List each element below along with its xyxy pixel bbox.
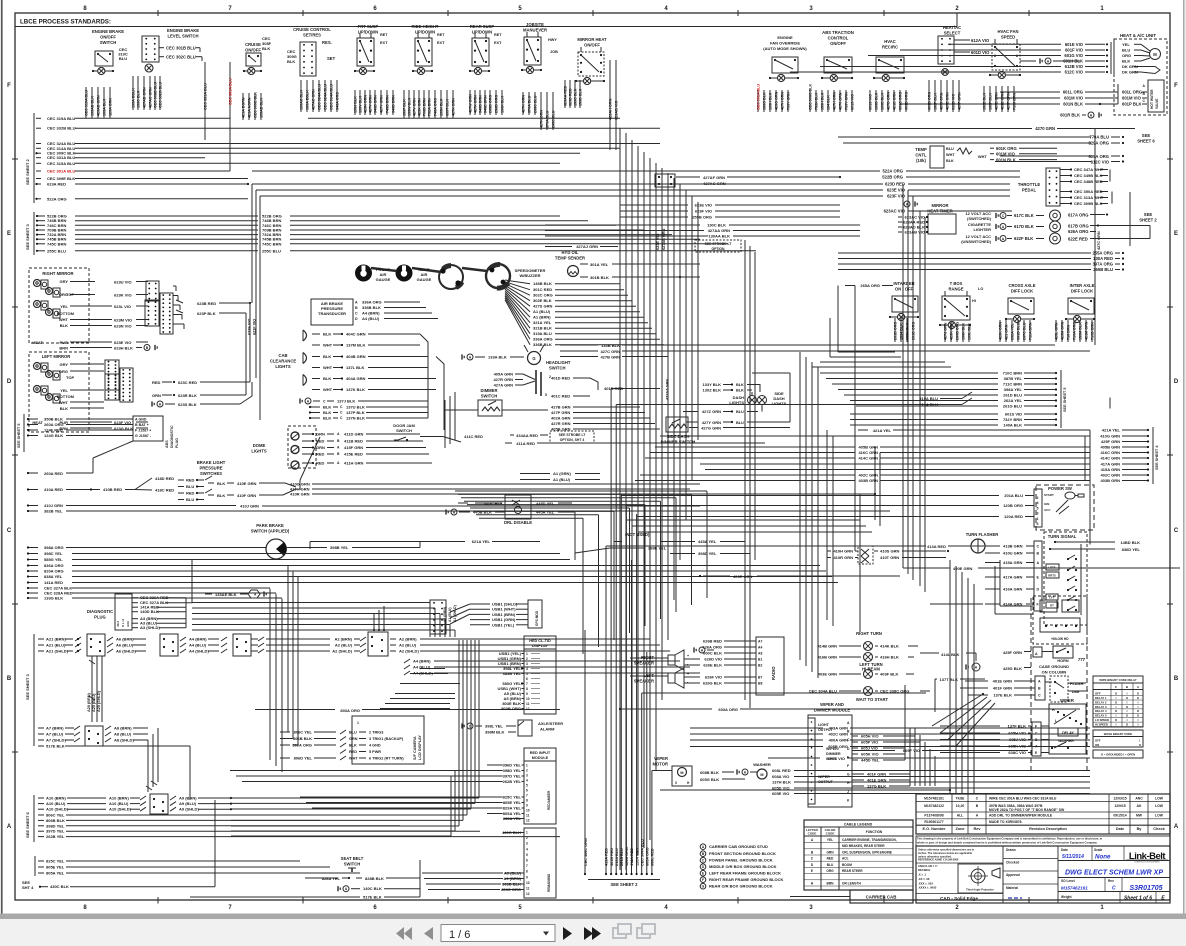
svg-text:WASH BINARY CODE: WASH BINARY CODE (1104, 732, 1133, 736)
svg-text:CEC 301A BLU: CEC 301A BLU (229, 78, 233, 105)
svg-text:10: 10 (526, 697, 530, 701)
svg-text:(10k): (10k) (916, 158, 926, 163)
svg-text:CEC 332B BLU: CEC 332B BLU (159, 81, 163, 108)
svg-text:CARRIER CAB: CARRIER CAB (866, 895, 897, 900)
svg-text:410E GRN: 410E GRN (237, 481, 256, 486)
svg-text:265B BLU: 265B BLU (1093, 267, 1113, 272)
svg-text:141A RED: 141A RED (44, 580, 63, 585)
svg-text:261B ORG: 261B ORG (912, 322, 916, 340)
svg-text:DELAY 3: DELAY 3 (1095, 705, 1107, 709)
svg-text:WIPER: WIPER (654, 756, 668, 761)
svg-text:421A YEL: 421A YEL (1102, 428, 1121, 433)
svg-text:RADIO: RADIO (771, 666, 776, 680)
svg-text:601M VIO: 601M VIO (996, 152, 1016, 157)
svg-text:VALVE: VALVE (1155, 98, 1159, 109)
svg-text:Approval: Approval (1006, 873, 1020, 877)
svg-text:133L BLK: 133L BLK (968, 323, 972, 340)
svg-text:D: D (7, 379, 12, 385)
svg-text:420C BLK: 420C BLK (502, 830, 521, 835)
svg-text:401F GRN: 401F GRN (867, 772, 886, 777)
svg-text:B1: B1 (758, 658, 762, 662)
svg-text:FRONT SECTION GROUND BLOCK: FRONT SECTION GROUND BLOCK (709, 851, 776, 856)
svg-text:TEMP SENDER: TEMP SENDER (555, 256, 585, 261)
svg-text:B8: B8 (758, 682, 762, 686)
svg-text:133G BLK: 133G BLK (44, 596, 63, 601)
svg-text:321B BLK: 321B BLK (533, 326, 552, 331)
svg-text:CARRIER ENGINE, TRANSMISSION,: CARRIER ENGINE, TRANSMISSION, (842, 838, 897, 842)
svg-text:SELECT: SELECT (944, 30, 961, 35)
svg-text:825C YEL: 825C YEL (46, 859, 65, 864)
svg-text:11: 11 (526, 887, 530, 891)
svg-text:WHT: WHT (59, 317, 69, 322)
svg-text:135J BLK: 135J BLK (354, 96, 358, 113)
svg-text:ORG: ORG (59, 369, 68, 374)
svg-text:153E BLK: 153E BLK (983, 92, 987, 110)
svg-text:3 TRIG1 (BACKUP): 3 TRIG1 (BACKUP) (369, 737, 404, 741)
svg-text:133A BLK: 133A BLK (103, 98, 107, 116)
svg-text:605S VIO: 605S VIO (828, 756, 845, 761)
svg-text:A4: A4 (758, 646, 762, 650)
svg-text:BLK: BLK (60, 323, 68, 328)
svg-text:WHT: WHT (978, 155, 987, 159)
svg-text:806A ORG: 806A ORG (292, 743, 312, 748)
svg-text:336A ORG: 336A ORG (533, 337, 553, 342)
svg-text:133H BLK: 133H BLK (769, 92, 773, 110)
svg-text:BOOM: BOOM (842, 863, 852, 867)
svg-text:405B GRN: 405B GRN (858, 445, 878, 450)
svg-text:265C BLU: 265C BLU (534, 95, 538, 113)
svg-text:398D YEL: 398D YEL (503, 768, 522, 773)
svg-text:601K ORG: 601K ORG (996, 146, 1017, 151)
svg-text:BLK: BLK (217, 481, 225, 486)
svg-text:REFERENCE ASME Y14.5M-2009: REFERENCE ASME Y14.5M-2009 (918, 858, 959, 862)
svg-text:THROTTLE: THROTTLE (1018, 182, 1041, 187)
svg-text:CEC 314A BLU: CEC 314A BLU (330, 84, 334, 110)
svg-text:G: G (847, 773, 850, 777)
svg-text:605D VIO: 605D VIO (772, 786, 790, 791)
svg-text:770A BLU: 770A BLU (1089, 135, 1109, 140)
svg-text:SEE STROBE LT: SEE STROBE LT (705, 242, 733, 246)
svg-text:398A ORG: 398A ORG (44, 545, 64, 550)
svg-text:WHT: WHT (323, 365, 333, 370)
svg-text:262B YEL: 262B YEL (46, 834, 65, 839)
svg-text:RED: RED (316, 439, 325, 444)
svg-text:427AC GRN: 427AC GRN (312, 89, 316, 110)
svg-text:5: 5 (545, 393, 547, 397)
svg-text:START: START (1044, 493, 1054, 497)
svg-text:346D BRN: 346D BRN (392, 95, 396, 113)
svg-text:612C VIO: 612C VIO (1065, 70, 1084, 75)
svg-text:A20 (BLU): A20 (BLU) (92, 693, 96, 712)
svg-text:1537 BLK: 1537 BLK (403, 99, 407, 116)
svg-text:137M BLK: 137M BLK (346, 343, 365, 348)
svg-text:9: 9 (526, 875, 528, 879)
svg-text:OUTPUT: OUTPUT (818, 780, 834, 784)
svg-text:SEE SHEET 5: SEE SHEET 5 (1063, 388, 1067, 412)
svg-text:803D BLK: 803D BLK (502, 882, 521, 887)
svg-text:DOME: DOME (253, 443, 266, 448)
svg-text:M: M (1153, 52, 1157, 57)
svg-text:A6 (BLU): A6 (BLU) (116, 643, 134, 648)
svg-text:SWITCHES: SWITCHES (200, 471, 222, 476)
svg-text:445D YEL: 445D YEL (536, 501, 555, 506)
svg-text:623N VIO: 623N VIO (114, 324, 132, 329)
svg-text:None: None (1095, 854, 1111, 861)
svg-text:Rev: Rev (1108, 879, 1114, 883)
svg-text:623E VIO: 623E VIO (656, 233, 660, 250)
svg-text:745C BRN: 745C BRN (47, 241, 66, 246)
svg-text:623F VIO: 623F VIO (887, 194, 906, 199)
svg-text:623D RED: 623D RED (885, 182, 905, 187)
svg-text:SWITCH (APPLIED): SWITCH (APPLIED) (251, 529, 290, 534)
svg-text:C: C (7, 528, 12, 534)
svg-text:POWER PANEL GROUND BLOCK: POWER PANEL GROUND BLOCK (709, 858, 773, 863)
svg-text:410R GRN: 410R GRN (290, 492, 310, 497)
svg-text:BRN: BRN (827, 881, 835, 885)
svg-text:403B GRN: 403B GRN (858, 478, 878, 483)
svg-text:423AD GRN: 423AD GRN (97, 95, 101, 116)
svg-text:ACL: ACL (842, 857, 849, 861)
svg-text:12/03/15: 12/03/15 (1113, 797, 1126, 801)
svg-text:402C GRN: 402C GRN (1100, 473, 1120, 478)
svg-text:BLK: BLK (287, 59, 295, 64)
svg-text:SET/RES: SET/RES (303, 32, 321, 37)
svg-text:410U GRN: 410U GRN (1003, 551, 1023, 556)
svg-text:319A BLU: 319A BLU (533, 331, 552, 336)
svg-text:410G GRN: 410G GRN (1100, 434, 1120, 439)
svg-text:265A ORG: 265A ORG (860, 283, 880, 288)
svg-text:BLU: BLU (186, 497, 194, 502)
svg-text:BLU: BLU (1122, 48, 1130, 53)
svg-text:SPEED: SPEED (1001, 34, 1015, 39)
svg-text:321A YEL: 321A YEL (533, 320, 552, 325)
svg-text:SEE SHEET 3: SEE SHEET 3 (25, 673, 30, 700)
svg-text:PRESSURE: PRESSURE (199, 466, 222, 471)
svg-text:601M VIO: 601M VIO (1064, 96, 1084, 101)
svg-text:CONTROL: CONTROL (828, 35, 849, 40)
svg-text:623K VIO: 623K VIO (114, 293, 132, 298)
svg-text:711A BRN: 711A BRN (1029, 322, 1033, 340)
svg-text:421A YEL: 421A YEL (873, 428, 892, 433)
svg-text:MADE TO X3R03876.: MADE TO X3R03876. (989, 820, 1023, 824)
svg-text:836A ORG: 836A ORG (44, 563, 64, 568)
svg-text:HVAC: HVAC (884, 39, 896, 44)
svg-text:137G BLK: 137G BLK (867, 784, 886, 789)
svg-text:DELAY 2: DELAY 2 (1095, 700, 1107, 704)
svg-text:MOVE 262A TO POS 7 OF "T BOX R: MOVE 262A TO POS 7 OF "T BOX RANGE" SW (989, 808, 1065, 812)
svg-text:A: A (7, 824, 12, 830)
svg-text:621A YEL: 621A YEL (472, 539, 491, 544)
svg-text:YEL: YEL (827, 838, 833, 842)
svg-text:HOT WATER: HOT WATER (1150, 89, 1154, 109)
svg-text:301C RED: 301C RED (533, 287, 552, 292)
svg-text:623M VIO: 623M VIO (114, 318, 132, 323)
svg-text:GRN: GRN (316, 432, 325, 437)
svg-text:4: 4 (1037, 501, 1039, 505)
svg-text:Date: Date (1061, 848, 1068, 852)
svg-text:A4 (SHLD): A4 (SHLD) (189, 649, 209, 654)
svg-text:346B BRN: 346B BRN (374, 95, 378, 113)
svg-text:600C BLK: 600C BLK (703, 651, 722, 656)
svg-text:A3 (SHLD): A3 (SHLD) (140, 625, 160, 630)
svg-text:416C GRN: 416C GRN (858, 450, 878, 455)
svg-text:WHT: WHT (946, 153, 955, 157)
svg-text:12: 12 (526, 819, 530, 823)
svg-text:BLK: BLK (946, 159, 954, 163)
svg-text:ABS TRACTION: ABS TRACTION (822, 30, 854, 35)
svg-text:INTARDER: INTARDER (893, 281, 914, 286)
svg-text:D: D (355, 317, 358, 321)
svg-text:445A YEL: 445A YEL (698, 539, 717, 544)
svg-text:TRANSDUCER: TRANSDUCER (318, 311, 346, 316)
svg-text:623F VIO: 623F VIO (114, 420, 131, 425)
svg-text:WIPER: WIPER (1060, 698, 1074, 703)
svg-text:601N BLK: 601N BLK (996, 158, 1016, 163)
svg-text:GRN: GRN (826, 850, 834, 854)
svg-text:134 BLK: 134 BLK (827, 95, 831, 110)
svg-text:805A YEL: 805A YEL (46, 871, 65, 876)
svg-text:255C BLU: 255C BLU (47, 248, 66, 253)
svg-text:2: 2 (1037, 496, 1039, 500)
svg-text:401F GRN: 401F GRN (993, 686, 1012, 691)
svg-text:410T GRN: 410T GRN (880, 555, 899, 560)
svg-text:WIPER AND: WIPER AND (820, 702, 844, 707)
svg-text:838A YEL: 838A YEL (44, 574, 63, 579)
svg-text:E: E (7, 231, 11, 237)
svg-text:627AB GRN: 627AB GRN (662, 228, 666, 250)
svg-text:BLK: BLK (60, 406, 68, 411)
svg-text:F: F (847, 764, 849, 768)
svg-text:201A BLU: 201A BLU (1004, 493, 1023, 498)
svg-text:403F BLK: 403F BLK (880, 672, 899, 677)
svg-text:4270 GRN: 4270 GRN (1035, 126, 1055, 131)
svg-text:A10 (BRN): A10 (BRN) (46, 796, 66, 801)
svg-text:JOB: JOB (550, 50, 558, 54)
svg-text:HEAT: HEAT (32, 420, 43, 425)
svg-text:825C YEL: 825C YEL (503, 795, 522, 800)
svg-text:+: + (687, 672, 689, 676)
svg-text:137J BLK: 137J BLK (337, 399, 355, 404)
svg-text:401B RED: 401B RED (610, 848, 614, 866)
svg-text:608L RED: 608L RED (651, 848, 655, 866)
svg-text:1: 1 (526, 764, 528, 768)
svg-text:UP/DOWN: UP/DOWN (358, 29, 378, 34)
svg-text:410H GRN: 410H GRN (833, 549, 853, 554)
svg-text:414B GRN: 414B GRN (817, 644, 837, 649)
svg-text:427AD GRN: 427AD GRN (143, 87, 147, 108)
svg-text:F: F (1035, 725, 1037, 729)
svg-text:427F GRN: 427F GRN (1007, 92, 1011, 110)
svg-text:255A ORG: 255A ORG (1092, 251, 1113, 256)
svg-text:A3X: A3X (126, 621, 130, 627)
svg-text:DIAGNOSTIC: DIAGNOSTIC (87, 609, 113, 614)
svg-text:RED/AMBER: RED/AMBER (547, 790, 551, 810)
svg-text:IGN: IGN (1044, 502, 1049, 506)
svg-text:GRN: GRN (152, 393, 161, 398)
svg-text:BOTTOM: BOTTOM (57, 394, 75, 399)
svg-text:INTER AXLE: INTER AXLE (1070, 283, 1095, 288)
svg-text:ON/OFF: ON/OFF (584, 42, 600, 47)
svg-text:4270 GRN: 4270 GRN (839, 92, 843, 110)
svg-text:GRN: GRN (349, 737, 358, 741)
svg-text:YEL: YEL (1122, 42, 1130, 47)
svg-text:A9 (SHLD): A9 (SHLD) (179, 807, 199, 812)
svg-text:DIM: DIM (1072, 689, 1080, 694)
svg-text:CLEARANCE: CLEARANCE (270, 359, 296, 364)
svg-text:427C GRN: 427C GRN (600, 349, 620, 354)
svg-text:MW: MW (1136, 814, 1143, 818)
svg-text:137P BLK: 137P BLK (346, 410, 365, 415)
svg-text:403E GRN: 403E GRN (818, 672, 837, 677)
svg-text:133D BLK: 133D BLK (875, 92, 879, 110)
svg-text:CRUISE: CRUISE (245, 42, 261, 47)
svg-text:SIDE DASH: SIDE DASH (667, 434, 690, 439)
svg-text:10: 10 (526, 809, 530, 813)
svg-text:MODULE: MODULE (532, 756, 549, 760)
svg-text:Date: Date (1116, 827, 1124, 831)
svg-text:CNTL: CNTL (915, 153, 927, 158)
svg-text:140A BLK: 140A BLK (1003, 423, 1022, 428)
svg-text:GRN: GRN (316, 445, 325, 450)
svg-text:153F BLK: 153F BLK (934, 93, 938, 110)
svg-text:DK GRN: DK GRN (1122, 70, 1138, 75)
svg-text:710C BRN: 710C BRN (1003, 371, 1022, 376)
svg-text:745B BRN: 745B BRN (386, 95, 390, 113)
svg-text:BRN: BRN (59, 346, 68, 351)
svg-text:DIMMER SWITCH: DIMMER SWITCH (661, 440, 696, 445)
svg-text:5: 5 (1037, 506, 1039, 510)
svg-text:414L BLK: 414L BLK (941, 652, 959, 657)
svg-text:212A BLU: 212A BLU (615, 848, 619, 866)
svg-text:CAD - Solid Edge: CAD - Solid Edge (940, 896, 978, 901)
svg-text:SWITCH: SWITCH (396, 428, 412, 433)
svg-text:HORN: HORN (1057, 659, 1068, 663)
svg-text:153C BLK: 153C BLK (574, 88, 578, 106)
svg-text:706B BRN: 706B BRN (423, 98, 427, 116)
svg-text:BLK: BLK (262, 46, 270, 51)
svg-text:CEC 301A BLU: CEC 301A BLU (757, 84, 761, 110)
svg-text:803C ORG: 803C ORG (501, 887, 521, 892)
svg-text:Sheet 1 of 6: Sheet 1 of 6 (1124, 896, 1152, 902)
svg-text:MOTOR: MOTOR (652, 762, 668, 767)
svg-text:TURN FLASHER: TURN FLASHER (966, 532, 999, 537)
svg-text:617A ORG: 617A ORG (1068, 213, 1089, 218)
svg-text:401C RED: 401C RED (551, 394, 570, 399)
svg-text:423X GRN: 423X GRN (418, 98, 422, 116)
svg-text:609A ORG: 609A ORG (646, 847, 650, 866)
svg-text:B: B (7, 676, 12, 682)
svg-text:421E GRN: 421E GRN (893, 92, 897, 110)
svg-text:123A GRN: 123A GRN (109, 98, 113, 116)
svg-text:427H GRN: 427H GRN (833, 92, 837, 110)
svg-text:A1 (BRN): A1 (BRN) (533, 315, 551, 320)
svg-text:P137408098: P137408098 (924, 814, 943, 818)
svg-text:445C BLK: 445C BLK (484, 501, 503, 506)
svg-text:LIGHTS: LIGHTS (772, 401, 787, 406)
svg-text:FUNCTION: FUNCTION (866, 830, 883, 834)
svg-text:5: 5 (526, 672, 528, 676)
svg-text:140D BLK: 140D BLK (140, 609, 159, 614)
svg-text:A9 (BLU): A9 (BLU) (179, 801, 197, 806)
svg-text:806C YEL: 806C YEL (46, 813, 65, 818)
svg-text:612B VIO: 612B VIO (1065, 64, 1084, 69)
svg-text:418D RED: 418D RED (155, 476, 174, 481)
svg-text:387B YEL: 387B YEL (1004, 376, 1023, 381)
svg-text:WIRE CEC 301A BLU WAS CEC 331A: WIRE CEC 301A BLU WAS CEC 331A BLU (989, 797, 1057, 801)
svg-text:REMAINING: REMAINING (547, 873, 551, 892)
svg-text:806B BLK: 806B BLK (293, 736, 312, 741)
svg-text:HEADLIGHT: HEADLIGHT (546, 360, 571, 365)
svg-text:GPS MOD: GPS MOD (535, 610, 539, 626)
svg-text:398C YEL: 398C YEL (44, 551, 63, 556)
svg-text:601H BLK: 601H BLK (1063, 59, 1083, 64)
svg-text:ENGINE: ENGINE (777, 35, 793, 40)
svg-text:M: M (760, 773, 763, 777)
svg-text:B: B (1038, 687, 1041, 691)
svg-text:Zone: Zone (955, 827, 964, 831)
svg-text:405B GRN: 405B GRN (1100, 445, 1120, 450)
svg-text:LEVEL SWITCH: LEVEL SWITCH (167, 33, 198, 38)
svg-text:445B BLK: 445B BLK (473, 510, 492, 515)
svg-text:6: 6 (526, 677, 528, 681)
svg-text:398A YEL: 398A YEL (1004, 387, 1023, 392)
svg-text:411B RED: 411B RED (344, 439, 363, 444)
svg-text:6: 6 (526, 859, 528, 863)
svg-text:BLK: BLK (323, 376, 331, 381)
svg-text:517E BLK: 517E BLK (46, 744, 65, 749)
svg-text:427AG GRN: 427AG GRN (703, 181, 726, 186)
svg-text:PUR: PUR (60, 340, 69, 345)
svg-text:398M BLK: 398M BLK (485, 730, 504, 735)
svg-text:522B ORG: 522B ORG (882, 175, 903, 180)
svg-text:A4 (BLU): A4 (BLU) (189, 643, 207, 648)
svg-text:124F RED: 124F RED (44, 428, 63, 433)
svg-text:427AF GRN: 427AF GRN (703, 175, 725, 180)
svg-text:(SWITCHED): (SWITCHED) (967, 216, 992, 221)
svg-text:J1/J: J1/J (116, 621, 120, 627)
svg-text:605P VIO: 605P VIO (861, 740, 878, 745)
svg-text:F: F (702, 878, 704, 882)
svg-text:HED CL-TID: HED CL-TID (529, 639, 551, 643)
svg-text:138K BLK: 138K BLK (906, 322, 910, 340)
svg-text:CEC 350A RED: CEC 350A RED (1074, 189, 1103, 194)
svg-text:397A ORG: 397A ORG (1092, 262, 1113, 267)
svg-text:601S VIO: 601S VIO (851, 94, 855, 110)
svg-text:423M GRN: 423M GRN (1061, 321, 1065, 340)
svg-text:SPEAKER: SPEAKER (634, 679, 654, 684)
svg-text:LIGHTER: LIGHTER (973, 227, 991, 232)
svg-text:623G BLK: 623G BLK (114, 426, 133, 431)
svg-text:402A GRN: 402A GRN (551, 416, 571, 421)
svg-text:427S GRN: 427S GRN (533, 304, 552, 309)
svg-text:605E VIO: 605E VIO (772, 791, 789, 796)
svg-text:A7 (BRN): A7 (BRN) (46, 726, 64, 731)
svg-text:623A RED: 623A RED (47, 182, 66, 187)
svg-text:RT: RT (1050, 604, 1054, 608)
svg-text:806B BLK: 806B BLK (46, 818, 65, 823)
svg-text:302E BLK: 302E BLK (533, 298, 552, 303)
svg-text:733Y GRN: 733Y GRN (845, 92, 849, 110)
svg-text:522A ORG: 522A ORG (882, 169, 903, 174)
svg-text:A8 (SHLD): A8 (SHLD) (114, 738, 134, 743)
svg-text:SPEAKER: SPEAKER (634, 661, 654, 666)
svg-text:427X GRN: 427X GRN (452, 98, 456, 116)
svg-text:2: 2 (526, 836, 528, 840)
svg-text:260A ORG: 260A ORG (44, 422, 64, 427)
svg-text:PLUG: PLUG (94, 615, 106, 620)
svg-text:LFT: LFT (1049, 596, 1054, 600)
svg-text:REAR SUSP: REAR SUSP (470, 24, 495, 29)
